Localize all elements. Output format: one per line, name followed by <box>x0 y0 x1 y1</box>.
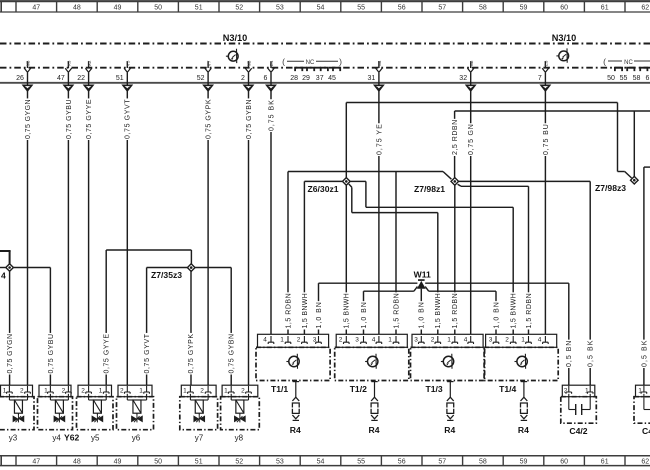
svg-text:0,75 BU: 0,75 BU <box>543 124 550 155</box>
svg-text:29: 29 <box>302 75 310 82</box>
svg-text:W11: W11 <box>414 270 431 280</box>
svg-text:(: ( <box>282 57 285 67</box>
injector y8 body (solenoid valve) <box>221 394 260 430</box>
NC bracket (right) with pins 50 55 58 6 <box>603 57 650 82</box>
spark plug connector and spark plug R4 (T1/1) <box>292 382 299 421</box>
svg-text:1: 1 <box>139 387 143 394</box>
svg-text:56: 56 <box>398 458 406 465</box>
svg-text:1,5 RDBN: 1,5 RDBN <box>526 293 533 328</box>
svg-text:55: 55 <box>620 75 628 82</box>
spark plug connector and spark plug R4 (T1/3) <box>447 382 454 421</box>
svg-text:R4: R4 <box>444 425 455 435</box>
svg-text:59: 59 <box>520 458 528 465</box>
svg-text:49: 49 <box>114 5 122 12</box>
svg-text:1: 1 <box>99 387 103 394</box>
svg-text:37: 37 <box>316 75 324 82</box>
svg-text:T1/2: T1/2 <box>350 384 367 394</box>
svg-text:1: 1 <box>388 337 392 344</box>
svg-text:1,0 BN: 1,0 BN <box>361 302 368 328</box>
separation arrow below pin 32 <box>466 85 475 91</box>
svg-text:N3/10: N3/10 <box>223 33 248 43</box>
svg-text:62: 62 <box>641 458 649 465</box>
wire 0,5 BN capacitor C4/2 pin 2 to ground bus <box>565 283 573 385</box>
svg-text:1,5 BNWH: 1,5 BNWH <box>511 293 518 328</box>
svg-text:50: 50 <box>607 75 615 82</box>
svg-text:45: 45 <box>328 75 336 82</box>
pin 22 of N3/10 <box>77 60 92 85</box>
svg-text:1: 1 <box>447 337 451 344</box>
spark plug label R4 (T1/3) <box>444 425 455 435</box>
svg-text:56: 56 <box>398 5 406 12</box>
injector y7 connector <box>181 385 216 397</box>
ignition coil T1/2 connector with pins 2 3 4 1 <box>336 334 407 347</box>
separation arrow below pin 51 <box>123 85 132 91</box>
svg-text:Z6/30z1: Z6/30z1 <box>308 184 339 194</box>
bottom ruler scale <box>0 456 650 466</box>
svg-text:1,0 BN: 1,0 BN <box>493 302 500 328</box>
wire 1,5 RDBN from coil T1/2 pin 1 joining RDBN line <box>392 172 400 335</box>
svg-text:49: 49 <box>114 458 122 465</box>
svg-text:C4: C4 <box>642 426 650 436</box>
pin 31 of N3/10 <box>368 60 383 85</box>
svg-text:47: 47 <box>32 458 40 465</box>
svg-text:57: 57 <box>438 5 446 12</box>
svg-text:59: 59 <box>520 5 528 12</box>
svg-text:0,75 GYVT: 0,75 GYVT <box>125 99 132 139</box>
wire 0,75 GYBU splice 4 to injector y4 pin 1 <box>13 268 55 386</box>
splice Z7/98z3 <box>595 176 638 192</box>
wire from splice Z6/30z1 to splice Z7/98z3 <box>346 103 631 179</box>
svg-text:C4/2: C4/2 <box>569 426 587 436</box>
svg-text:61: 61 <box>601 458 609 465</box>
splice 4 (cut at page edge) <box>0 251 13 281</box>
ignition coil T1/4 body <box>484 347 558 380</box>
separation arrow below pin 31 <box>375 85 384 91</box>
svg-text:R4: R4 <box>518 425 529 435</box>
separation arrow below pin 26 <box>23 85 32 91</box>
injector y5 label y5 <box>91 433 100 442</box>
svg-text:1,5 RDBN: 1,5 RDBN <box>393 293 400 328</box>
svg-text:0,75 GYBN: 0,75 GYBN <box>229 334 236 374</box>
injector y6 connector <box>118 385 152 397</box>
svg-text:W4: W4 <box>377 60 382 66</box>
svg-text:58: 58 <box>479 5 487 12</box>
svg-text:0,75 GYBU: 0,75 GYBU <box>66 99 73 139</box>
wire 1,5 BNWH from splice Z6/30z1 to coil T1/1 pin 2 <box>301 181 343 334</box>
wire 0,5 BK from off-page to capacitor C4/1 (cut at page edge) <box>640 167 650 385</box>
svg-text:E1: E1 <box>269 60 274 66</box>
svg-text:Y62: Y62 <box>64 432 80 442</box>
svg-text:0,5 BN: 0,5 BN <box>566 341 573 367</box>
separation arrow below pin 47 <box>64 85 73 91</box>
svg-text:M8: M8 <box>247 60 252 66</box>
wire 1,0 BN coil T1/3 pin 3 to ground W11 <box>418 289 426 335</box>
separation arrow below pin 6 <box>267 85 276 91</box>
svg-text:60: 60 <box>560 5 568 12</box>
svg-text:58: 58 <box>479 458 487 465</box>
injector y3 body (solenoid valve) <box>0 394 34 430</box>
ignition coil T1/4 connector with pins 3 2 1 4 <box>486 334 557 347</box>
wire 1,0 BN coil T1/4 pin 3 to ground bus <box>492 291 500 334</box>
ground bus lower (1,0 BN wires of T1/2, T1/4) <box>364 287 497 292</box>
svg-text:61: 61 <box>601 5 609 12</box>
svg-text:2: 2 <box>200 387 204 394</box>
svg-text:2: 2 <box>505 337 509 344</box>
svg-text:1,5 RDBN: 1,5 RDBN <box>285 293 292 328</box>
svg-text:53: 53 <box>276 458 284 465</box>
svg-text:T1/3: T1/3 <box>426 384 443 394</box>
svg-text:52: 52 <box>235 458 243 465</box>
svg-text:26: 26 <box>16 75 24 82</box>
svg-text:y8: y8 <box>235 433 244 442</box>
component symbol inside N3/10 (right) <box>556 48 568 62</box>
separation arrow below pin 22 <box>84 85 93 91</box>
wire 0,75 GYGN from pin 26 to injector y3 pin 2 <box>24 91 32 386</box>
svg-text:1,0 BN: 1,0 BN <box>316 302 323 328</box>
spark plug label R4 (T1/2) <box>369 425 380 435</box>
wire 0,75 GYYE from pin 22 to injector y5 pin 2 <box>85 91 93 386</box>
spark plug connector and spark plug R4 (T1/4) <box>521 382 528 421</box>
svg-text:0,75 GYGN: 0,75 GYGN <box>25 99 32 139</box>
svg-text:1: 1 <box>280 337 284 344</box>
control unit N3/10 upper boundary (dash-dot line) <box>0 43 650 45</box>
svg-text:1: 1 <box>183 387 187 394</box>
injector y7 label y7 <box>195 433 204 442</box>
svg-text:51: 51 <box>195 458 203 465</box>
svg-text:R4: R4 <box>369 425 380 435</box>
ground bus upper (1,0 BN wires of T1/1, C4/2) <box>319 282 569 284</box>
svg-text:2: 2 <box>120 387 124 394</box>
svg-text:y5: y5 <box>91 433 100 442</box>
svg-text:54: 54 <box>317 5 325 12</box>
svg-text:4: 4 <box>263 337 267 344</box>
wire 0,75 GYVT splice Z7/35z3 to injector y6 pin 1 <box>143 268 188 386</box>
injector y5 body (solenoid valve) <box>77 394 114 430</box>
svg-text:53: 53 <box>276 5 284 12</box>
pin 47 of N3/10 <box>57 60 72 85</box>
svg-text:1,5 RDBN: 1,5 RDBN <box>452 293 459 328</box>
capacitor label C4 (cut) <box>642 426 650 436</box>
svg-text:V5: V5 <box>126 60 131 66</box>
svg-text:0,75 GYGN: 0,75 GYGN <box>7 334 14 374</box>
svg-text:2: 2 <box>297 337 301 344</box>
injector y6 body (solenoid valve) <box>117 394 154 430</box>
splice Z7/98z1 <box>414 178 459 194</box>
svg-text:1,5 BNWH: 1,5 BNWH <box>302 293 309 328</box>
wire 0,75 GYPK splice Z7/35z3 to injector y7 pin 1 <box>187 271 195 385</box>
svg-text:2: 2 <box>81 387 85 394</box>
wire 1,5 BNWH from splice Z6/30z1 to coil T1/3 pin 2 <box>349 184 442 334</box>
spark plug label R4 (T1/1) <box>290 425 301 435</box>
svg-text:N3/10: N3/10 <box>552 33 577 43</box>
label N3/10 (right) <box>552 33 577 43</box>
wire 0,75 GYPK from pin 52 to injector y7 pin 2 <box>205 91 213 386</box>
top ruler scale <box>0 1 650 12</box>
svg-text:0,5 BK: 0,5 BK <box>641 340 648 367</box>
svg-text:M6: M6 <box>26 60 31 66</box>
svg-text:y7: y7 <box>195 433 204 442</box>
svg-text:1,5 BNWH: 1,5 BNWH <box>435 293 442 328</box>
svg-text:7: 7 <box>538 75 542 82</box>
svg-text:2: 2 <box>241 387 245 394</box>
svg-text:50: 50 <box>154 458 162 465</box>
svg-text:y4: y4 <box>52 433 61 442</box>
pin 51 of N3/10 <box>116 60 131 85</box>
svg-text:47: 47 <box>57 75 65 82</box>
svg-text:2: 2 <box>20 387 24 394</box>
wire 2,5 RDBN from splice Z7/98z1 to off-page (right) <box>451 111 650 178</box>
svg-text:52: 52 <box>235 5 243 12</box>
ignition coil T1/3 body <box>411 347 485 380</box>
pin 6 of N3/10 <box>263 60 274 85</box>
svg-text:X3: X3 <box>67 60 72 66</box>
wire 0,75 BU from pin 7 to ignition coil T1/4 pin 4 <box>542 91 550 335</box>
svg-text:E3: E3 <box>544 60 549 66</box>
svg-text:4: 4 <box>538 337 542 344</box>
ground point W11 <box>414 270 431 289</box>
injector y4 connector <box>39 385 71 397</box>
svg-text:0,75 GYPK: 0,75 GYPK <box>188 334 195 374</box>
svg-text:0,75 GYBN: 0,75 GYBN <box>246 99 253 139</box>
svg-text:0,75 GYYE: 0,75 GYYE <box>86 99 93 139</box>
svg-text:28: 28 <box>290 75 298 82</box>
spark plug connector and spark plug R4 (T1/2) <box>371 382 378 421</box>
svg-text:0,75 GYPK: 0,75 GYPK <box>206 99 213 139</box>
wire 1,0 BN coil T1/2 pin 3 to ground bus <box>360 291 368 334</box>
spark plug label R4 (T1/4) <box>518 425 529 435</box>
svg-text:57: 57 <box>438 458 446 465</box>
wire 1,5 RDBN from coil T1/1 pin 1 to splice Z7/98z1 <box>284 172 451 335</box>
ignition coil T1/3 connector with pins 3 2 1 4 <box>412 334 483 347</box>
svg-text:6: 6 <box>263 75 267 82</box>
ignition coil T1/4 label T1/4 <box>499 384 516 394</box>
svg-text:1,5 BNWH: 1,5 BNWH <box>344 293 351 328</box>
svg-text:NC: NC <box>306 60 315 66</box>
separation arrow below pin 2 <box>244 85 253 91</box>
label N3/10 (left) <box>223 33 248 43</box>
component symbol inside N3/10 (left) <box>226 49 238 63</box>
wire 1,0 BN coil T1/1 pin 3 to ground bus <box>315 283 323 334</box>
capacitor C4/1 connector (cut at page edge) <box>636 385 650 397</box>
svg-text:(: ( <box>603 57 606 67</box>
pin 52 of N3/10 <box>197 60 212 85</box>
ignition coil T1/2 label T1/2 <box>350 384 367 394</box>
control unit N3/10 lower boundary (dash-dot line) <box>0 67 650 69</box>
svg-text:4: 4 <box>464 337 468 344</box>
separation arrow below pin 52 <box>204 85 213 91</box>
svg-text:T1/4: T1/4 <box>499 384 516 394</box>
svg-text:1: 1 <box>224 387 228 394</box>
svg-text:0,75 GYBU: 0,75 GYBU <box>48 334 55 374</box>
svg-text:58: 58 <box>633 75 641 82</box>
svg-text:50: 50 <box>154 5 162 12</box>
svg-text:60: 60 <box>560 458 568 465</box>
svg-text:55: 55 <box>357 5 365 12</box>
svg-text:0,75 YE: 0,75 YE <box>376 124 383 155</box>
ignition coil T1/1 connector with pins 4 1 2 3 <box>258 334 329 347</box>
wire 0,75 GYBU from pin 47 to injector y4 pin 2 <box>65 91 73 386</box>
wire 1,5 BNWH from splice Z6/30z1 to coil T1/4 pin 2 <box>350 181 517 334</box>
pin 32 of N3/10 <box>459 60 474 85</box>
capacitor C4/2 connector <box>562 385 595 397</box>
svg-text:55: 55 <box>357 458 365 465</box>
wire 0,75 GYGN splice 4 to injector y3 pin 1 <box>6 271 14 385</box>
capacitor C4/1 body (cut at page edge) <box>634 394 650 423</box>
wire 0,75 GYVT from pin 51 to injector y6 pin 2 <box>124 91 132 386</box>
splice Z7/35z3 <box>151 264 195 280</box>
svg-text:2: 2 <box>431 337 435 344</box>
wire 1,5 RDBN from splice Z7/98z1 down to coil T1/3 pin 1 <box>451 185 459 334</box>
svg-text:Z7/98z1: Z7/98z1 <box>414 184 445 194</box>
svg-text:48: 48 <box>73 458 81 465</box>
injector y8 label y8 <box>235 433 244 442</box>
svg-text:1: 1 <box>521 337 525 344</box>
injector y7 body (solenoid valve) <box>180 394 218 430</box>
svg-text:32: 32 <box>459 75 467 82</box>
svg-text:X2: X2 <box>87 60 92 66</box>
svg-text:47: 47 <box>32 5 40 12</box>
ignition coil T1/1 label T1/1 <box>271 384 288 394</box>
svg-text:1,0 BN: 1,0 BN <box>419 302 426 328</box>
svg-text:0,75 GYYE: 0,75 GYYE <box>104 334 111 374</box>
svg-text:6: 6 <box>646 75 650 82</box>
injector group label Y62 <box>64 432 80 442</box>
pin 26 of N3/10 <box>16 60 31 85</box>
svg-text:2: 2 <box>62 387 66 394</box>
capacitor C4/2 body <box>561 394 597 423</box>
svg-text:54: 54 <box>317 458 325 465</box>
svg-text:48: 48 <box>73 5 81 12</box>
wire 1,5 RDBN from splice Z7/98z1 to coil T1/4 pin 1 <box>458 184 533 334</box>
svg-text:2,5 RDBN: 2,5 RDBN <box>452 120 459 155</box>
svg-text:4: 4 <box>372 337 376 344</box>
svg-text:Z7/98z3: Z7/98z3 <box>595 183 626 193</box>
wire 1,5 BNWH from splice Z6/30z1 down to coil T1/2 pin 2 <box>343 185 351 334</box>
svg-text:2: 2 <box>339 337 343 344</box>
wire 0,75 BK from pin 6 to ignition coil T1/1 pin 4 <box>267 91 275 335</box>
svg-text:3: 3 <box>355 337 359 344</box>
svg-text:52: 52 <box>197 75 205 82</box>
svg-text:2: 2 <box>241 75 245 82</box>
svg-text:R4: R4 <box>290 425 301 435</box>
svg-text:V7: V7 <box>206 60 211 66</box>
svg-text:3: 3 <box>489 337 493 344</box>
svg-text:0,75 GYVT: 0,75 GYVT <box>144 333 151 373</box>
svg-text:y6: y6 <box>132 433 141 442</box>
svg-text:22: 22 <box>77 75 85 82</box>
injector y4 label y4 <box>52 433 61 442</box>
svg-text:3: 3 <box>414 337 418 344</box>
separation arrow below pin 7 <box>541 85 550 91</box>
svg-text:T1/1: T1/1 <box>271 384 288 394</box>
svg-text:): ) <box>339 57 342 67</box>
wire 0,75 GYBN splice Z7/35z3 to injector y8 pin 1 <box>195 268 236 386</box>
NC bracket (left) with pins 28 29 37 45 <box>282 57 342 82</box>
injector y4 body (solenoid valve) <box>38 394 73 430</box>
svg-text:0,5 BK: 0,5 BK <box>588 340 595 367</box>
wire 0,75 GN from pin 32 to ignition coil T1/3 pin 4 <box>467 91 475 335</box>
pin 2 of N3/10 <box>241 60 252 85</box>
frame line below control unit <box>0 82 650 84</box>
injector y8 connector <box>222 385 258 397</box>
ignition coil T1/3 label T1/3 <box>426 384 443 394</box>
ignition coil T1/2 body <box>335 347 409 380</box>
svg-text:51: 51 <box>116 75 124 82</box>
svg-text:y3: y3 <box>9 433 18 442</box>
svg-text:31: 31 <box>368 75 376 82</box>
svg-text:0,75 GN: 0,75 GN <box>468 124 475 155</box>
splice Z6/30z1 <box>308 178 351 194</box>
injector y6 label y6 <box>132 433 141 442</box>
svg-text:62: 62 <box>641 5 649 12</box>
wire from splice Z7/98z1 to capacitor C4/2 pin 1 <box>459 181 595 385</box>
svg-text:51: 51 <box>195 5 203 12</box>
svg-text:4: 4 <box>1 271 6 281</box>
injector y3 label y3 <box>9 433 18 442</box>
svg-text:NC: NC <box>624 60 633 66</box>
wire 0,75 YE from pin 31 to ignition coil T1/2 pin 4 <box>375 91 383 335</box>
svg-text:0,75 BK: 0,75 BK <box>268 100 275 131</box>
wire 0,75 GYBN from pin 2 to injector y8 pin 2 <box>245 91 253 386</box>
capacitor label C4/2 <box>569 426 587 436</box>
injector y5 connector <box>78 385 112 397</box>
svg-text:Z7/35z3: Z7/35z3 <box>151 270 182 280</box>
injector y3 connector <box>1 385 33 397</box>
pin 7 of N3/10 <box>538 60 549 85</box>
wire 0,75 GYYE rail to injector y5 pin 1 <box>103 250 192 385</box>
svg-text:W5: W5 <box>469 60 474 66</box>
ignition coil T1/1 body <box>256 347 330 380</box>
